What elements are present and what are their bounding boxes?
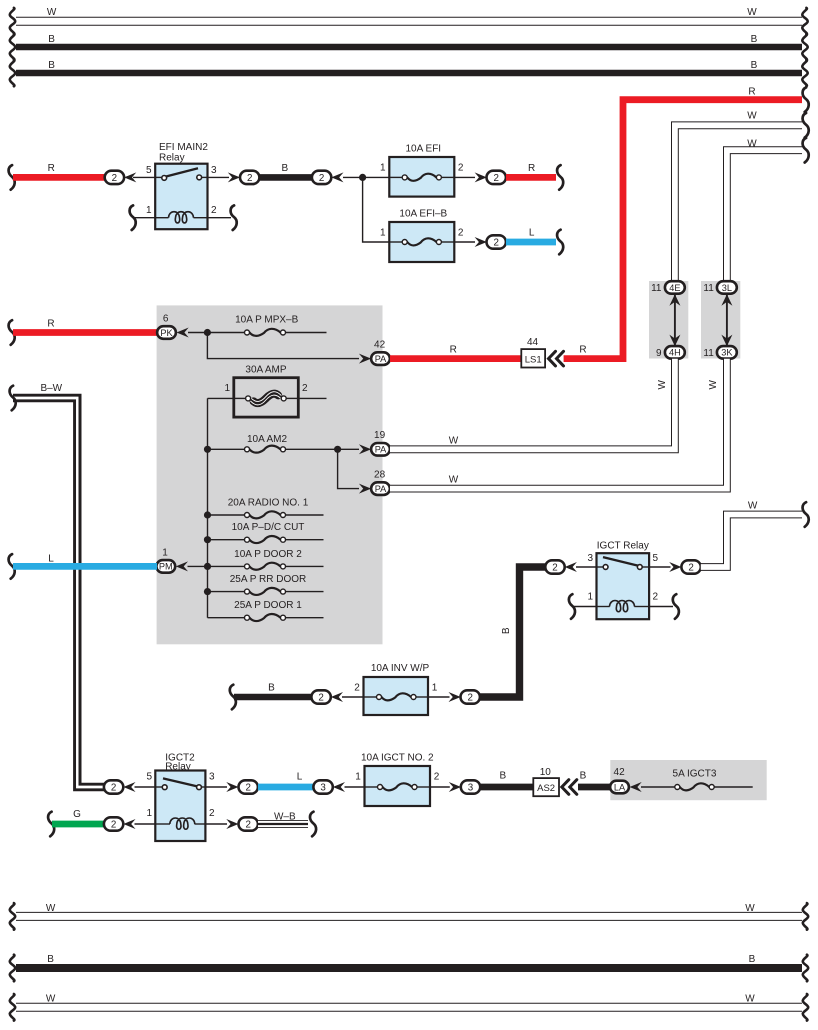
svg-text:PM: PM [159,562,173,572]
svg-text:R: R [579,344,586,355]
svg-text:W: W [449,436,459,447]
junction node y566 [204,563,211,570]
squiggle B bot right [803,955,808,982]
svg-text:5: 5 [146,165,152,176]
svg-text:W: W [449,475,459,486]
svg-text:R: R [748,87,755,98]
svg-text:3: 3 [209,772,215,783]
fuse element 25A P RR DOOR [245,588,286,595]
EFI MAIN2 coil [155,217,168,219]
wire IGCT2 pin3 to arrow [205,786,227,788]
fuse element 10A IGCT NO.2 [378,783,418,790]
double chevron AS2 [562,780,577,795]
connector 2 G [104,817,123,830]
fuse element 25A P DOOR 1 [245,614,286,621]
wire bus to fuse [208,565,245,567]
connector 2 (R out) [487,171,506,184]
svg-text:1: 1 [162,547,168,558]
connector pass-through box 3L/3K [701,281,740,359]
wire W to connector 4E [675,125,802,282]
IGCT relay switch [597,566,605,568]
female arrow from connector [331,172,343,182]
wire PM to bus [188,565,208,567]
IGCT relay coil [597,606,610,608]
squiggle relay coil right [231,205,237,230]
svg-text:2: 2 [319,173,324,184]
svg-text:2: 2 [111,783,116,794]
svg-text:3K: 3K [721,348,733,358]
connector pass-through box 4E/4H [649,281,688,359]
connector 2 INV left [311,690,330,703]
wire branch to PA 28 [338,449,359,488]
fuse element 10A AM2 [245,446,286,453]
connector 2 (B wire left) [240,171,259,184]
svg-text:5: 5 [146,772,152,783]
wire R main feed [564,100,802,359]
wire IGCT2 pin2 to arrow [205,823,227,825]
squiggle W bot2 right [803,994,808,1021]
svg-text:W: W [747,7,757,18]
svg-text:2: 2 [209,808,215,819]
wire squiggle to IGCT pin1 [573,606,597,608]
connector 2 (B wire right) [312,171,331,184]
male arrow into connector 2 [228,172,240,182]
wire fuse out [286,539,324,541]
svg-text:G: G [73,809,81,820]
female arrow IGCT2 pin5 [123,782,135,792]
wire W to connector 3L [727,150,802,282]
svg-text:L: L [529,228,535,239]
svg-text:B: B [580,770,587,781]
svg-text:2: 2 [467,693,472,704]
fuse 10A EFI body [389,157,454,197]
fuse element 10A INV W/P [377,693,417,700]
svg-text:B: B [751,60,758,71]
squiggle B bot left [10,955,15,982]
svg-text:B: B [281,163,288,174]
squiggle B bus1 left [10,34,15,61]
svg-text:B: B [48,34,55,45]
female arrow into connector 2 [124,172,136,182]
svg-text:1: 1 [380,163,386,174]
svg-text:2: 2 [112,173,117,184]
svg-text:9: 9 [656,348,662,359]
female arrow from fuse IGCT NO.2 [333,782,345,792]
svg-text:20A RADIO NO. 1: 20A RADIO NO. 1 [228,497,309,508]
junction node AM2 out [334,446,341,453]
wire R out [506,174,556,181]
male arrow into connector L2 [226,782,238,792]
wire B bus 1 [16,44,802,51]
wire arrow to INV fuse [342,696,364,698]
male arrow into PA 19 [359,444,371,454]
wire B INV to IGCT relay [480,567,545,697]
wire fuse EFI to arrow [454,176,475,178]
male arrow into connector W-B [226,819,238,829]
svg-text:2: 2 [245,820,250,831]
wire bus to fuse [208,514,245,516]
svg-text:PA: PA [375,484,387,494]
wire bus to fuse [208,539,245,541]
squiggle L out [557,230,563,255]
IGCT2 coil [155,823,170,825]
squiggle R efi left [9,165,15,190]
squiggle W-B right [310,812,316,837]
wire R PA to LS1 [390,355,545,362]
fuse 10A EFI-B body [389,222,454,262]
wire IGCT pin5 to arrow [649,566,670,568]
svg-text:B: B [749,954,756,965]
junction node y591 [204,588,211,595]
svg-text:2: 2 [493,238,498,249]
wire arrow to fuse IGCT NO.2 [345,786,365,788]
female arrow into PM [176,561,188,571]
connector PK [157,326,176,339]
wire fuse out [286,617,324,619]
svg-text:28: 28 [374,470,386,481]
wire W PA28 to 3K [390,359,727,489]
male arrow into PA 42 [359,354,371,364]
svg-text:25A P RR DOOR: 25A P RR DOOR [230,574,307,585]
svg-text:2: 2 [458,228,464,239]
connector LA [610,781,629,794]
wire branch to 42 PA [207,333,359,359]
wire R to PK [13,329,157,336]
svg-text:R: R [48,163,55,174]
svg-text:25A P DOOR 1: 25A P DOOR 1 [234,600,302,611]
connector 4E [665,281,685,294]
wire fuse out [286,565,324,567]
wire L out [506,239,556,246]
connector PA 19 [371,443,390,456]
svg-text:3: 3 [587,553,593,564]
wire arrow to relay pin5 [133,176,155,178]
svg-text:2: 2 [493,173,498,184]
svg-text:1: 1 [146,205,152,216]
junction node fuse feed [359,174,366,181]
squiggle B-W left [10,386,16,411]
svg-text:2: 2 [111,820,116,831]
wire arrow to IGCT pin3 [576,566,597,568]
connector 2 IGCT left [545,560,564,573]
squiggle B bus2 left [10,60,15,87]
fuse element 20A RADIO NO. 1 [245,511,286,518]
wire B-W striped [13,398,105,787]
wire INV fuse to arrow [428,696,450,698]
svg-text:B: B [48,60,55,71]
male arrow into connector 3 [449,782,461,792]
wire W bus top [16,17,802,26]
svg-text:10A P MPX–B: 10A P MPX–B [235,314,299,325]
squiggle B bus1 right [802,34,807,61]
fuse element 10A P-D/C CUT [245,536,286,543]
svg-text:3L: 3L [722,283,732,293]
svg-text:IGCT Relay: IGCT Relay [597,541,649,552]
svg-text:10A EFI–B: 10A EFI–B [399,208,447,219]
connector 2 INV right [461,690,480,703]
connector 2 W-B [239,817,258,830]
svg-text:2: 2 [245,783,250,794]
male arrow into PA 28 [359,484,371,494]
wire fuse out [286,591,324,593]
svg-text:Relay: Relay [165,761,191,772]
fusible link element 30A AMP [246,392,287,405]
wire IGCT pin2 to squiggle [649,606,673,608]
link 4E-4H [674,294,676,346]
svg-text:B: B [47,954,54,965]
fuse element 5A IGCT3 [675,783,714,790]
wire W bus bottom 1 [16,912,802,921]
wire bus to AM2 [208,448,245,450]
squiggle W 4E right [803,113,809,138]
svg-text:B: B [268,683,275,694]
wire fuse out [286,514,324,516]
svg-text:2: 2 [434,772,440,783]
fuse 10A INV W/P body [364,677,429,715]
male arrow into INV connector [449,692,461,702]
svg-text:2: 2 [458,163,464,174]
female arrow into PK [177,328,189,338]
squiggle IGCT coil right [673,594,679,619]
svg-text:3: 3 [211,165,217,176]
connector 3L [717,281,737,294]
svg-text:10A AM2: 10A AM2 [247,434,287,445]
EFI MAIN2 switch contact [155,176,163,178]
wire pin2 to squiggle [208,217,232,219]
wire-break squiggle W bus right [802,8,807,35]
svg-text:1: 1 [587,591,593,602]
connector 2 IGCT2 L [239,780,258,793]
svg-text:W: W [745,903,755,914]
IGCT2 switch [155,786,163,788]
wire bus to fuse [208,591,245,593]
svg-text:Relay: Relay [159,152,185,163]
svg-text:10A P DOOR 2: 10A P DOOR 2 [234,549,302,560]
svg-text:1: 1 [432,682,438,693]
squiggle B INV left [230,685,236,710]
svg-text:W: W [47,7,57,18]
svg-text:2: 2 [552,563,557,574]
squiggle W 3L right [803,138,809,163]
arrow down into 3K [721,335,732,347]
relay IGCT body [597,553,650,619]
connector 2 (R wire) [105,171,124,184]
svg-text:4E: 4E [669,283,680,293]
svg-text:10A EFI: 10A EFI [406,144,442,155]
svg-text:AS2: AS2 [537,783,555,794]
svg-text:4H: 4H [669,348,681,358]
squiggle W IGCT right [803,502,809,527]
relay EFI MAIN2 body [155,164,207,230]
junction block 5A IGCT3 box [610,760,766,800]
squiggle R feed right [803,87,809,112]
svg-text:44: 44 [527,337,539,348]
svg-text:2: 2 [354,682,360,693]
wire MPX-B out [286,332,327,334]
svg-text:B: B [751,34,758,45]
svg-text:PA: PA [375,445,387,455]
svg-text:10: 10 [540,767,552,778]
male arrow into connector [475,172,487,182]
squiggle L PM left [9,554,15,579]
wire W-B striped [258,820,308,828]
wire-break squiggle W bus left [10,8,15,35]
wire AMP out [298,397,326,399]
female arrow INV [331,692,343,702]
wire fuse EFI-B to arrow [454,241,475,243]
svg-text:6: 6 [163,313,169,324]
wire W PA19 to 4H [390,359,675,450]
wire R to EFI relay [13,174,105,181]
splice AS2 [533,778,559,796]
arrow up into 3L [721,294,732,306]
svg-text:2: 2 [247,173,252,184]
wire branch to fuse EFI-B [363,177,390,242]
svg-text:B–W: B–W [40,383,62,394]
svg-text:5A IGCT3: 5A IGCT3 [673,768,717,779]
wire IGCT3 out [714,786,753,788]
fuse element 10A P MPX-B [245,329,286,336]
svg-text:11: 11 [703,348,714,359]
connector 2 IGCT right [681,560,700,573]
fuse element 10A EFI [402,174,441,181]
svg-text:EFI MAIN2: EFI MAIN2 [159,142,208,153]
svg-text:W: W [748,501,758,512]
wire squiggle to pin1 [134,217,155,219]
svg-text:10A IGCT NO. 2: 10A IGCT NO. 2 [361,753,434,764]
connector PA 28 [371,482,390,495]
svg-text:11: 11 [651,283,662,294]
squiggle G left [48,812,54,837]
svg-text:19: 19 [374,430,386,441]
squiggle W bot1 left [10,903,15,930]
junction node y515 [204,511,211,518]
wire B to INV fuse [234,694,312,701]
link 3L-3K [726,294,728,346]
wire W bus bottom 2 [16,1003,802,1012]
svg-text:PK: PK [160,328,173,338]
squiggle W bot2 left [10,994,15,1021]
squiggle R out [557,165,563,190]
connector PM [156,560,175,573]
fusible link 30A AMP body [234,378,298,417]
wire bus to AMP [208,397,234,399]
wire AM2 to PA19 [286,448,360,450]
wire LA to fuse IGCT3 [641,786,675,788]
fuse element 10A EFI-B [402,238,441,245]
male arrow into connector W [669,562,681,572]
junction node y539 [204,536,211,543]
wire B between connectors [259,174,312,181]
svg-text:B: B [501,627,512,634]
wire arrow to IGCT2 pin5 [135,786,156,788]
female arrow into IGCT connector [565,562,577,572]
female arrow into LA [630,782,642,792]
wire G to IGCT2 [52,821,104,828]
svg-text:10A P–D/C CUT: 10A P–D/C CUT [232,522,305,533]
svg-text:R: R [47,318,54,329]
svg-text:42: 42 [614,767,626,778]
squiggle B bus2 right [802,60,807,87]
svg-text:W: W [46,994,56,1005]
svg-text:1: 1 [355,772,361,783]
wire pin3 to arrow [208,176,230,178]
svg-text:1: 1 [380,228,386,239]
junction block vertical bus [207,398,209,617]
wire fuse to arrow [430,786,450,788]
wire W from IGCT relay [701,515,802,568]
squiggle R PK left [9,320,15,345]
connector 3 AS2 side [461,780,480,793]
wire L IGCT2 [258,784,314,791]
svg-text:W: W [46,903,56,914]
wire bus to fuse [208,617,245,619]
junction node AM2 [204,446,211,453]
wire B to AS2 [480,784,533,791]
svg-text:10A INV W/P: 10A INV W/P [371,663,430,674]
arrow down into 4H [669,335,680,347]
connector 3 IGCT2 L [313,780,332,793]
wire B to LA [578,784,610,791]
wire arrow to IGCT2 pin1 [135,823,156,825]
fuse element 10A P DOOR 2 [245,563,286,570]
svg-text:5: 5 [653,553,659,564]
wire L to PM [13,563,157,570]
squiggle IGCT coil left [569,594,575,619]
connector 2 IGCT2 B-W [104,780,123,793]
connector 4H [665,346,685,359]
svg-text:LA: LA [614,782,626,792]
junction block box [157,305,383,644]
svg-text:L: L [297,772,303,783]
junction node MPX-B [204,329,211,336]
svg-text:3: 3 [468,783,474,794]
connector 2 (L out) [487,235,506,248]
svg-text:1: 1 [224,383,230,394]
svg-text:3: 3 [320,783,326,794]
svg-text:2: 2 [653,591,659,602]
svg-text:30A AMP: 30A AMP [245,364,286,375]
svg-text:R: R [450,344,457,355]
wire PK to fuse MPX-B [188,332,245,334]
svg-text:LS1: LS1 [525,354,542,365]
relay IGCT2 body [155,771,205,842]
svg-text:2: 2 [318,693,323,704]
arrow up into 4E [669,294,680,306]
svg-text:W: W [657,379,668,389]
svg-text:W: W [747,139,757,150]
wire B bus bottom [16,964,802,972]
svg-text:R: R [528,163,535,174]
wire to fuse EFI [343,176,389,178]
connector PA 42 [371,352,390,365]
wire B bus 2 [16,70,802,77]
male arrow into connector L [475,237,487,247]
svg-text:42: 42 [374,339,386,350]
svg-text:PA: PA [375,354,387,364]
svg-text:2: 2 [688,563,693,574]
svg-text:11: 11 [703,283,714,294]
squiggle relay coil left [130,205,136,230]
double chevron LS1 [549,351,564,366]
svg-text:W: W [745,994,755,1005]
svg-text:1: 1 [146,808,152,819]
svg-text:W–B: W–B [274,811,296,822]
female arrow IGCT2 pin1 [123,819,135,829]
splice LS1 [521,349,545,367]
fuse 10A IGCT NO.2 body [365,766,431,806]
squiggle W bot1 right [803,903,808,930]
